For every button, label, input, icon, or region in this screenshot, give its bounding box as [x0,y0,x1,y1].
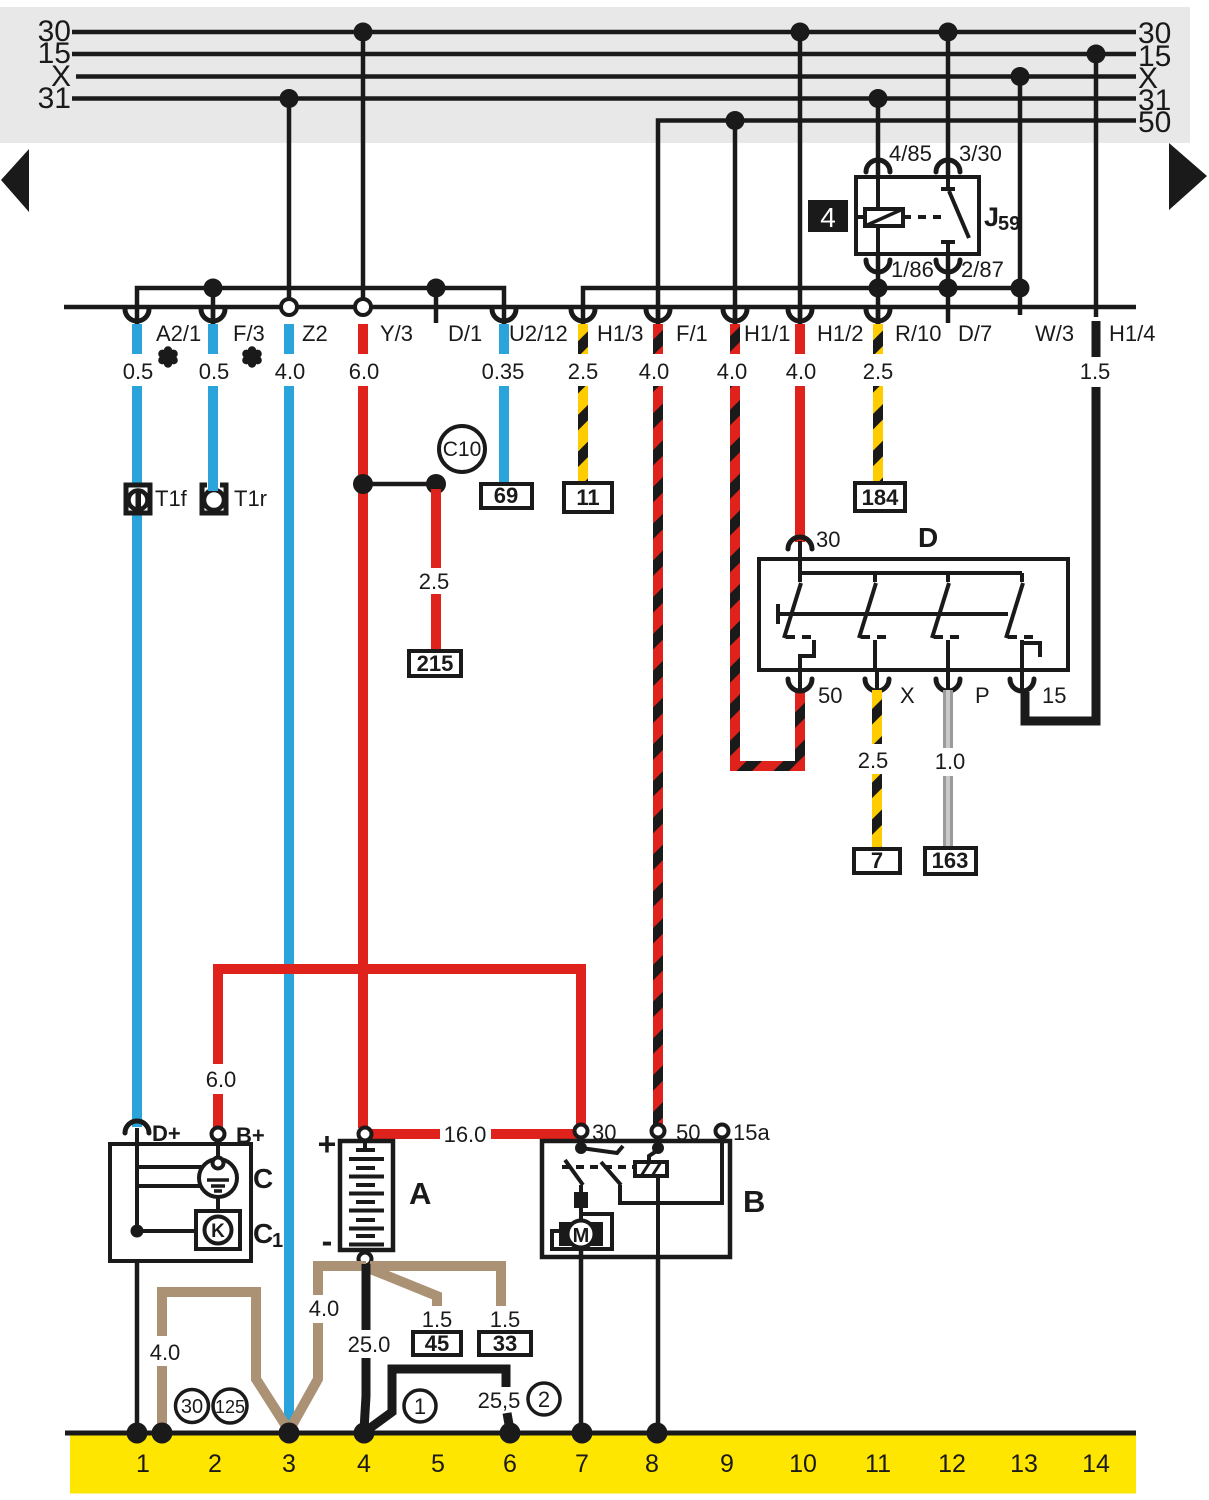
relay code 4 [808,200,848,232]
svg-text:Z2: Z2 [302,321,328,346]
svg-text:12: 12 [938,1450,966,1478]
bottom cups 50 X P 15 [788,679,1034,691]
connector labels [156,321,1155,346]
connector T1r [202,475,226,513]
motor M [559,1222,572,1246]
svg-text:50: 50 [818,683,842,708]
node Z2 bolt circle [281,299,297,315]
svg-text:C: C [253,1163,273,1194]
svg-text:A: A [409,1176,431,1211]
series resistor block [574,1192,588,1208]
svg-text:-: - [322,1223,333,1259]
ground marker circled 2 [528,1383,560,1415]
svg-text:A2/1: A2/1 [156,321,201,346]
earth track rail [65,1431,1136,1436]
cup terminal 30 [788,537,812,549]
wire A2/1 blue 0.5 [132,324,142,1127]
ground strap black track4-track6 25,5 [366,1369,510,1431]
wire starter coil to track 8 [656,1257,661,1430]
common bar [776,604,780,624]
wire U2/12 blue 0.35 [499,324,509,485]
ground box 7 [854,849,900,873]
svg-text:31: 31 [38,82,71,115]
svg-text:7: 7 [871,848,883,873]
svg-text:J: J [984,202,999,232]
svg-text:2.5: 2.5 [568,359,599,384]
regulator C1 [196,1211,240,1249]
ground marker circled 30 [176,1390,209,1423]
ground box 163 [925,848,976,874]
wire H1/2 riser from bus 30 [798,32,803,318]
svg-text:R/10: R/10 [895,321,941,346]
top gray power-rail band [0,7,1190,143]
svg-text:T1r: T1r [234,486,267,511]
wire H1/2 red 4.0 to D terminal 30 [795,324,805,542]
svg-text:2.5: 2.5 [419,569,450,594]
wire F/3 drop [211,288,216,318]
svg-text:33: 33 [493,1331,517,1356]
svg-text:13: 13 [1010,1450,1038,1478]
wire F/1 red/black 4.0 [653,324,663,1125]
wire D/1 drop [434,288,439,323]
red feed 6.0 from B+ up and over to starter 30 [213,969,581,1128]
red link 16.0 battery+ to starter 30 [372,1129,578,1139]
svg-text:Y/3: Y/3 [380,321,413,346]
main connector rail [64,305,1136,310]
wire Y/3 riser from bus 30 [361,32,366,307]
svg-text:4.0: 4.0 [639,359,670,384]
svg-text:2.5: 2.5 [863,359,894,384]
svg-text:0.5: 0.5 [123,359,154,384]
svg-text:25.0: 25.0 [348,1332,391,1357]
wire Z2 blue 4.0 [284,324,294,1430]
bracket bus left (A2/1 to U2/12) [137,288,504,307]
svg-text:1: 1 [136,1450,150,1478]
wire H1/3 yellow/black 2.5 [578,324,588,483]
svg-text:125: 125 [215,1397,245,1417]
ground box 184 [855,483,905,511]
bus 31 [72,96,1136,101]
svg-text:30: 30 [592,1120,616,1145]
svg-text:1/86: 1/86 [891,257,934,282]
wire 15 black 1.5 from H1/4 to D terminal 15 [1025,321,1096,721]
svg-text:D+: D+ [152,1121,181,1146]
bus labels right [1138,17,1171,139]
svg-text:7: 7 [575,1450,589,1478]
svg-text:1.5: 1.5 [1080,359,1111,384]
svg-text:4.0: 4.0 [275,359,306,384]
svg-text:163: 163 [932,848,969,873]
alternator C [110,1121,283,1261]
svg-text:W/3: W/3 [1035,321,1074,346]
svg-text:25,5: 25,5 [478,1388,521,1413]
svg-text:P: P [975,683,990,708]
wire X yellow/black 2.5 to ground 7 [872,690,882,850]
svg-text:C: C [253,1218,273,1249]
svg-text:+: + [318,1126,337,1162]
relay J59 [808,141,1020,282]
svg-text:U2/12: U2/12 [509,321,568,346]
svg-text:H1/1: H1/1 [744,321,790,346]
svg-text:59: 59 [998,213,1020,235]
svg-text:3/30: 3/30 [959,141,1002,166]
connector cups on main rail [125,309,890,321]
svg-text:16.0: 16.0 [444,1122,487,1147]
bus 15 [72,52,1136,57]
svg-text:H1/4: H1/4 [1109,321,1155,346]
right page arrow [1169,143,1207,210]
svg-text:4.0: 4.0 [309,1296,340,1321]
svg-text:1.0: 1.0 [935,749,966,774]
svg-text:14: 14 [1082,1450,1110,1478]
svg-text:B: B [743,1184,765,1219]
svg-text:4.0: 4.0 [786,359,817,384]
svg-text:2.5: 2.5 [858,748,889,773]
battery A [318,1126,432,1266]
track dots [127,1423,668,1444]
svg-text:50: 50 [676,1120,700,1145]
ignition switch D [759,522,1068,708]
bus X [76,74,1136,79]
svg-text:D: D [918,522,938,553]
svg-text:H1/3: H1/3 [597,321,643,346]
svg-text:10: 10 [789,1450,817,1478]
svg-text:4: 4 [820,202,836,233]
svg-text:1.5: 1.5 [422,1307,453,1332]
ground marker circled 125 [213,1389,247,1423]
wire R/10 yellow/black 2.5 [873,324,883,483]
connector stubs through cups [137,307,878,325]
ground box 33 [479,1332,531,1355]
bus labels left [38,15,71,115]
svg-text:9: 9 [720,1450,734,1478]
svg-text:C10: C10 [443,438,482,461]
wire H1/4 riser from bus 15 [1094,54,1099,317]
svg-text:4: 4 [357,1450,371,1478]
svg-text:69: 69 [494,483,518,508]
relay contact [903,215,946,219]
wire P grey 1.0 to ground 163 [943,690,953,849]
node Y/3 bolt circle [355,299,371,315]
wire relay 1/86 drop to bracket [876,255,881,324]
node C10 junction on Y/3 [353,474,373,494]
generator circle [199,1159,237,1197]
wire C ground to track 1 [135,1261,140,1430]
wire H1/1 red/black 4.0 to D terminal 50 [735,324,800,766]
ground box 11 [564,483,612,512]
svg-text:11: 11 [576,485,599,510]
wire W/3 riser from bus X [1018,77,1023,316]
wire starter M to track 7 [579,1247,584,1430]
wire Y/3 red 6.0 [358,324,368,1128]
svg-text:H1/2: H1/2 [817,321,863,346]
label C10 [439,426,485,472]
svg-text:4.0: 4.0 [717,359,748,384]
wire battery- brown to ground 33 [370,1266,501,1306]
svg-text:3: 3 [282,1450,296,1478]
svg-text:8: 8 [645,1450,659,1478]
asterisk marks [158,346,262,367]
ground box 69 [481,484,532,508]
svg-text:1: 1 [414,1394,426,1419]
wire red 2.5 to ground 215 [431,489,441,652]
svg-text:F/1: F/1 [676,321,708,346]
svg-text:45: 45 [425,1331,449,1356]
svg-text:11: 11 [865,1450,891,1478]
svg-text:6.0: 6.0 [206,1067,237,1092]
terminal B+ circle [212,1128,225,1141]
yellow track band [70,1436,1136,1494]
ground box 45 [413,1332,461,1355]
bus 50 with corner down to F/1 [658,121,1136,319]
relay terminal cups [866,160,960,272]
junction dots on bracket [204,279,223,298]
svg-text:1.5: 1.5 [490,1307,521,1332]
svg-text:15: 15 [1042,683,1066,708]
svg-text:T1f: T1f [155,486,188,511]
wire Z2 riser from bus 31 [287,99,292,308]
relay coil [865,209,903,226]
svg-text:15a: 15a [733,1120,770,1145]
switch contacts [798,573,802,582]
solenoid coil [635,1162,667,1176]
wire relay 2/87 drop to D/7 [946,255,951,323]
svg-text:50: 50 [1138,106,1171,139]
wire link to 215 branch [363,482,436,487]
wire H1/1 riser from bus 50 [733,121,738,319]
wire relay 3/30 riser from bus 30 [946,32,951,177]
svg-text:F/3: F/3 [233,321,265,346]
wire gauge labels [123,359,1111,384]
wire battery- black 25.0 to track 4 [364,1264,366,1430]
svg-text:D/7: D/7 [958,321,992,346]
svg-text:M: M [573,1225,590,1247]
starter B [542,1120,770,1257]
ground marker circled 1 [404,1390,436,1422]
wire battery- brown to track 3 [290,1266,366,1429]
svg-text:2: 2 [538,1387,550,1412]
wire battery- brown to ground 45 [368,1268,437,1306]
ground box 215 [409,651,461,676]
svg-text:2/87: 2/87 [961,257,1004,282]
svg-text:X: X [900,683,915,708]
junction dots on buses [280,89,299,108]
svg-text:30: 30 [181,1396,203,1418]
bracket bus right (H1/3 to W/3) [583,288,1020,307]
svg-text:2: 2 [208,1450,222,1478]
cup terminal D+ [125,1121,149,1133]
svg-text:B+: B+ [236,1123,265,1148]
svg-text:K: K [211,1221,225,1242]
bus 30 [72,30,1136,35]
wire F/3 blue 0.5 [208,324,218,485]
svg-text:4.0: 4.0 [150,1340,181,1365]
svg-text:D/1: D/1 [448,321,482,346]
terminal circles [575,1125,588,1138]
switch rail [800,571,1022,575]
svg-text:0.35: 0.35 [482,359,525,384]
svg-text:1: 1 [272,1230,283,1252]
svg-text:6: 6 [503,1450,517,1478]
svg-text:6.0: 6.0 [349,359,380,384]
connector T1f [126,485,150,513]
terminal drops [800,640,814,670]
svg-text:215: 215 [417,651,454,676]
svg-text:30: 30 [816,527,840,552]
wire relay 4/85 riser from bus 31 [876,99,881,178]
dashed contacts [786,635,818,639]
svg-text:4/85: 4/85 [889,141,932,166]
ground strap brown track1-track3 [162,1292,288,1429]
svg-text:184: 184 [862,485,899,510]
svg-text:0.5: 0.5 [199,359,230,384]
svg-text:5: 5 [431,1450,445,1478]
track numbers [136,1450,1110,1478]
left page arrow [1,149,29,212]
